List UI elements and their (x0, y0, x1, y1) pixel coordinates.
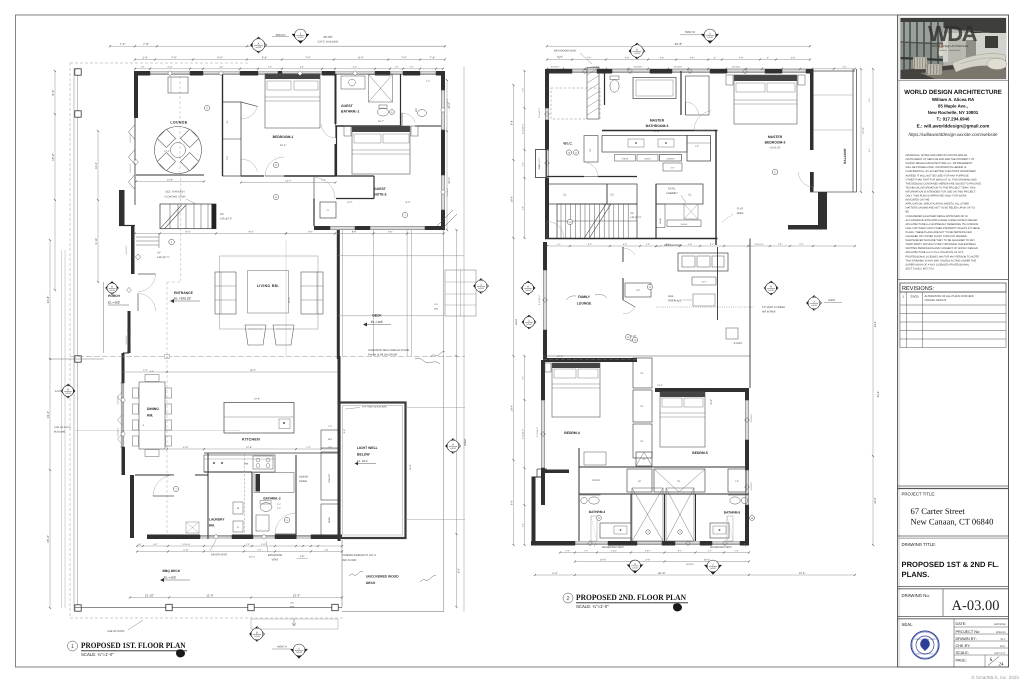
thin line through living rm (285, 240, 287, 356)
svg-text:BUILDING.: BUILDING. (54, 431, 66, 434)
dimension line (130, 597, 342, 599)
title block outer frame (898, 15, 1009, 667)
svg-text:2'-6": 2'-6" (258, 548, 262, 551)
svg-text:12'-0": 12'-0" (288, 297, 291, 303)
wc door (402, 113, 415, 122)
wall: bedrm4 north (543, 358, 637, 362)
svg-text:7'-4": 7'-4" (521, 376, 524, 380)
svg-text:SCALE:: SCALE: (956, 651, 970, 655)
svg-text:2'-0"x6'-0": 2'-0"x6'-0" (732, 66, 741, 69)
svg-text:26'-00": 26'-00" (323, 35, 332, 39)
toilet and sink bathrm5 (730, 497, 740, 504)
wall: plan2 south exterior (560, 541, 575, 546)
dimension line (547, 245, 855, 247)
shower pan bathrm2 (254, 473, 294, 493)
svg-text:A-3.00: A-3.00 (707, 36, 713, 39)
svg-text:A-3.00: A-3.00 (298, 36, 304, 39)
svg-text:LINE OF ROOF: LINE OF ROOF (107, 630, 125, 633)
wall: bedrm-4 west (541, 360, 545, 400)
svg-text:THIRD PARTY WITHOUT FIRST OBTA: THIRD PARTY WITHOUT FIRST OBTAINING THE … (906, 243, 977, 246)
window: wic west (545, 150, 547, 178)
compass/section marker (106, 282, 119, 295)
svg-text:8'-0": 8'-0" (406, 201, 411, 204)
compass/section marker (474, 279, 489, 294)
window: north wall (335, 71, 375, 73)
svg-text:16'-8": 16'-8" (409, 464, 412, 470)
closet band between bedrooms (633, 358, 652, 388)
svg-text:4'-6": 4'-6" (388, 230, 393, 233)
stair plan2 (557, 204, 637, 239)
svg-text:67 Carter Street: 67 Carter Street (911, 506, 966, 516)
svg-text:LC: LC (638, 480, 641, 483)
window: guest suite south (330, 226, 355, 228)
column (332, 604, 338, 610)
svg-text:REF: REF (328, 438, 333, 441)
shower drains (646, 530, 650, 534)
svg-text:6/20/2024: 6/20/2024 (994, 623, 1006, 626)
balcony east edge (852, 69, 854, 192)
wall: bedrm4 south (543, 470, 569, 474)
svg-text:4": 4" (767, 56, 769, 59)
wall jog to dining bay (123, 352, 129, 354)
svg-text:DRAWN BY:: DRAWN BY: (956, 637, 977, 641)
window: east wall (441, 90, 443, 130)
dimension line (535, 574, 855, 576)
svg-text:11'-6": 11'-6" (206, 593, 213, 597)
svg-text:EL.=105.25': EL.=105.25' (174, 297, 191, 301)
svg-text:2'-6": 2'-6" (328, 446, 333, 449)
svg-text:D: D (237, 526, 239, 529)
svg-text:1: 1 (71, 644, 74, 650)
wall: master se corner (818, 192, 827, 227)
shower bathrm-5 (666, 488, 694, 541)
door: wic (586, 163, 598, 177)
svg-text:BATHROOM-3: BATHROOM-3 (646, 124, 669, 128)
svg-text:VENT: VENT (272, 559, 279, 562)
plan 1 title (68, 641, 78, 651)
stove burners (253, 456, 273, 469)
closet CC (607, 184, 637, 204)
sofa left (215, 272, 236, 314)
svg-text:APPLICATION. SPECIFICATION S: APPLICATION. SPECIFICATION SHEETS. ALL O… (906, 203, 970, 206)
svg-text:2'-10"x5'-0": 2'-10"x5'-0" (521, 124, 524, 134)
svg-text:FLOATING STAIR: FLOATING STAIR (165, 196, 186, 199)
svg-text:PROJECT No:: PROJECT No: (956, 630, 981, 634)
svg-text:BEDROOM-1: BEDROOM-1 (273, 135, 294, 139)
marker circle bath (284, 517, 289, 522)
svg-text:7'-4": 7'-4" (430, 56, 435, 59)
svg-text:GUEST: GUEST (341, 104, 354, 108)
W markers (597, 516, 602, 521)
svg-text:12'-6": 12'-6" (280, 144, 287, 147)
svg-text:13'-6": 13'-6" (657, 384, 663, 387)
svg-text:THIS DRAWING IN ANY WAY UNLESS: THIS DRAWING IN ANY WAY UNLESS ACTING UN… (906, 259, 977, 262)
svg-text:PROJECT TITLE:: PROJECT TITLE: (902, 492, 936, 497)
drawing number box (898, 586, 1009, 588)
stair: floating stair (160, 204, 216, 229)
svg-text:WORLD DESIGN ARCHITECTURE LLC.: WORLD DESIGN ARCHITECTURE LLC. INFRINGEM… (906, 162, 973, 165)
svg-text:LAUNDRY: LAUNDRY (209, 518, 225, 522)
svg-text:WC: WC (415, 108, 418, 112)
prep closet (321, 504, 338, 535)
svg-text:19'-4": 19'-4" (46, 411, 50, 419)
svg-text:6'-0": 6'-0" (510, 500, 513, 505)
svg-text:GUEST: GUEST (374, 187, 387, 191)
svg-text:BATHRM.-1: BATHRM.-1 (341, 110, 360, 114)
svg-text:9½": 9½" (138, 543, 142, 546)
svg-text:16'-7": 16'-7" (378, 120, 384, 123)
svg-text:2'-6": 2'-6" (778, 243, 782, 246)
column (75, 605, 81, 611)
svg-text:UP: UP (157, 252, 161, 255)
deck area horizontals (338, 255, 464, 257)
svg-text:8'-10": 8'-10" (557, 56, 563, 59)
drawing title box (898, 535, 1009, 537)
page number 6/24 (984, 655, 986, 667)
svg-text:17'-4": 17'-4" (862, 127, 865, 134)
dimension line (137, 551, 342, 553)
svg-text:14R @7.5": 14R @7.5" (220, 218, 232, 221)
wall: master bath south (602, 130, 718, 132)
svg-text:AREA: AREA (737, 212, 744, 215)
svg-text:NORTH: NORTH (686, 563, 694, 566)
svg-text:22'-4": 22'-4" (448, 177, 451, 184)
svg-text:DRAWING TITLE:: DRAWING TITLE: (902, 542, 937, 547)
svg-text:STUDY: STUDY (734, 342, 743, 345)
window: plan2 north (572, 69, 597, 71)
svg-text:2'-6"x7'-0": 2'-6"x7'-0" (129, 163, 132, 172)
LC closet lounge (625, 283, 651, 297)
svg-text:New Canaan, CT 06840: New Canaan, CT 06840 (911, 517, 994, 527)
svg-text:84'-8": 84'-8" (877, 391, 880, 398)
svg-text:A-3.00: A-3.00 (634, 52, 640, 55)
svg-text:24: 24 (999, 662, 1005, 668)
walls: bathrooms (578, 448, 580, 541)
svg-text:2'-6": 2'-6" (226, 156, 229, 161)
svg-text:OTHER THAN THAT FOR WHICH IT I: OTHER THAN THAT FOR WHICH IT IS. THIS DR… (906, 178, 977, 181)
svg-text:2'-10"x5'-0": 2'-10"x5'-0" (538, 108, 541, 118)
lounge centerline dashed (179, 76, 181, 175)
svg-text:FINISH SLAB ON GRADE: FINISH SLAB ON GRADE (368, 354, 398, 357)
svg-text:EL.=105': EL.=105' (164, 576, 177, 580)
window: bedrm5 east (745, 470, 747, 505)
wall: living rm east (337, 230, 340, 359)
dimension line (860, 69, 862, 192)
svg-text:3'-0"x4'-4": 3'-0"x4'-4" (754, 243, 764, 246)
svg-text:SOUTH: SOUTH (685, 30, 695, 34)
wall: balcony west (810, 71, 814, 150)
svg-text:PREP: PREP (328, 516, 331, 522)
hearth dotted line (656, 306, 754, 308)
walls: kitchen bath block (207, 453, 209, 539)
svg-text:KITCHEN: KITCHEN (242, 438, 260, 442)
svg-text:DINING: DINING (147, 407, 159, 411)
svg-text:W.A.: W.A. (1000, 645, 1006, 648)
window: north wall (390, 71, 403, 73)
svg-text:PROPOSED 1ST & 2ND FL.: PROPOSED 1ST & 2ND FL. (902, 560, 999, 569)
svg-text:CONFIDENTIAL. BY ACCEPTING TH: CONFIDENTIAL. BY ACCEPTING THIS PRINT, B… (906, 170, 976, 173)
window: plan2 north (612, 69, 650, 71)
svg-text:2'-0"x6'-8": 2'-0"x6'-8" (446, 98, 449, 107)
svg-text:2'-0"x6'-0": 2'-0"x6'-0" (634, 66, 643, 69)
wic closet box (584, 136, 598, 163)
window: south wall (296, 534, 311, 536)
wall: east of kitchen (338, 356, 341, 541)
svg-text:2'-6"x7'-0": 2'-6"x7'-0" (129, 133, 132, 142)
svg-text:WEST: WEST (828, 299, 836, 302)
svg-text:WDA: WDA (928, 21, 978, 46)
wall: tub-shower divider (680, 71, 682, 115)
svg-text:DATE:: DATE: (956, 622, 967, 626)
svg-text:2'-2": 2'-2" (426, 80, 431, 83)
refrigerator closet (321, 430, 338, 448)
svg-text:RM.: RM. (147, 414, 153, 418)
guest bath toilet (378, 108, 389, 116)
svg-text:WEST: WEST (464, 438, 467, 446)
svg-text:E.: will.aworlddesign@gmail.co: E.: will.aworlddesign@gmail.com (917, 124, 990, 129)
svg-text:4'-0": 4'-0" (623, 243, 627, 246)
porch floor edge (103, 282, 105, 353)
svg-text:3'-4": 3'-4" (325, 548, 329, 551)
svg-text:New Rochelle, NY 10801: New Rochelle, NY 10801 (928, 110, 979, 115)
svg-text:DRYER VENT: DRYER VENT (211, 554, 228, 557)
wall: guest suite south (314, 226, 330, 230)
bed: bedrm-4 (552, 363, 600, 368)
window: plan2 south (712, 541, 740, 543)
dimension line (524, 356, 526, 545)
wall: alcove return (119, 225, 135, 227)
svg-text:SUPERVISION OF A NYS LICENSED: SUPERVISION OF A NYS LICENSED PROFESSION… (906, 263, 970, 266)
project title box (898, 485, 1009, 487)
svg-text:SHELF: SHELF (681, 223, 688, 226)
svg-text:BALCONY: BALCONY (843, 147, 847, 164)
svg-text:SEAL: SEAL (902, 622, 914, 627)
svg-text:2ND FLOOR.: 2ND FLOOR. (342, 559, 357, 562)
svg-text:SUITE-2: SUITE-2 (374, 193, 387, 197)
svg-text:LIGHT WELL: LIGHT WELL (357, 446, 378, 450)
dimension line (137, 545, 342, 547)
svg-text:LOUNGE: LOUNGE (170, 121, 187, 125)
svg-text:A: A (452, 443, 454, 446)
svg-text:7'-0": 7'-0" (305, 56, 310, 59)
svg-text:PLANS. THESE PLANS ARE NOT TO: PLANS. THESE PLANS ARE NOT TO BE REPRODU… (906, 231, 973, 234)
svg-text:ACCORDANCE WITH APPLICABLE CO: ACCORDANCE WITH APPLICABLE CODES.WORLD D… (906, 219, 978, 222)
svg-text:12'-10": 12'-10" (145, 593, 154, 597)
compass/section marker (250, 627, 265, 642)
toilet and sink bathrm4 (589, 497, 599, 504)
svg-text:7'-4": 7'-4" (120, 42, 126, 46)
svg-text:5'-4": 5'-4" (868, 148, 871, 152)
svg-text:A-3.00: A-3.00 (526, 323, 532, 326)
svg-text:4'-0": 4'-0" (688, 243, 692, 246)
svg-text:CC: CC (610, 194, 614, 197)
deck area verticals (342, 230, 344, 356)
svg-text:2'-0": 2'-0" (277, 503, 281, 506)
wall: east wing (749, 239, 751, 389)
svg-text:WHATSOEVER NOR ARE THEY TO BE: WHATSOEVER NOR ARE THEY TO BE ASSIGNED T… (906, 239, 976, 242)
laundry dashed appliance (186, 522, 199, 533)
svg-text:4'-10": 4'-10" (183, 446, 189, 449)
svg-text:2024-03: 2024-03 (996, 631, 1006, 634)
svg-text:SEAT: SEAT (538, 164, 541, 170)
guest suite closet (320, 202, 336, 218)
wall: plan1 west exterior (lounge) (134, 71, 138, 118)
svg-text:A-3.00: A-3.00 (65, 392, 71, 395)
dimension line (135, 68, 443, 70)
marker circles upper (204, 105, 209, 110)
wall: plan1 east exterior (guest suite) (441, 71, 445, 90)
dimension line (547, 68, 855, 70)
svg-text:A-03.00: A-03.00 (952, 598, 1000, 614)
svg-text:1/4"=1'-0": 1/4"=1'-0" (994, 652, 1005, 655)
svg-text:9'-2": 9'-2" (308, 230, 313, 233)
compass/section marker (704, 565, 722, 575)
svg-text:12'-6": 12'-6" (246, 446, 252, 449)
svg-text:2'-6": 2'-6" (799, 243, 803, 246)
svg-text:4'-1": 4'-1" (708, 549, 712, 552)
svg-text:3'-0"x5'-0": 3'-0"x5'-0" (117, 427, 120, 436)
svg-text:DECK: DECK (372, 314, 382, 318)
column (75, 356, 81, 362)
compass/section marker (446, 439, 461, 454)
svg-text:DRAIN: DRAIN (299, 480, 307, 483)
svg-text:13'-2": 13'-2" (285, 179, 291, 182)
svg-text:AGREES IT WILL NOT BE USED FOR: AGREES IT WILL NOT BE USED FOR ANY PURPO… (906, 174, 969, 177)
lounge console table (168, 77, 188, 93)
bathrm2 toilet (260, 503, 272, 512)
svg-text:LOUNGE: LOUNGE (577, 302, 592, 306)
svg-text:REG. ARCHITECT: REG. ARCHITECT (917, 653, 935, 656)
plan 1: left colonnade double line (73, 68, 75, 611)
wall: lounge-bedroom divider (222, 74, 224, 176)
svg-text:1'-0": 1'-0" (734, 549, 738, 552)
shelf boxes (615, 155, 636, 162)
wall: toilet room (604, 71, 606, 105)
column (75, 69, 81, 75)
svg-text:14R @7.5": 14R @7.5" (157, 256, 170, 259)
compass/section marker (807, 296, 822, 311)
svg-text:W.I.C.: W.I.C. (563, 142, 572, 146)
svg-text:LAW COPYRIGHT AND OTHER PROPER: LAW COPYRIGHT AND OTHER PROPERTY RIGHTS … (906, 227, 980, 230)
wall: sw bump plan2 (532, 477, 536, 541)
svg-text:14R @7.5": 14R @7.5" (630, 216, 642, 219)
svg-text:PROPOSED 1ST. FLOOR PLAN: PROPOSED 1ST. FLOOR PLAN (81, 641, 186, 650)
dimension line (97, 131, 99, 282)
svg-text:8'-0": 8'-0" (348, 201, 353, 204)
svg-text:BATHRM.-2: BATHRM.-2 (263, 497, 281, 501)
svg-text:SHELF: SHELF (622, 157, 629, 160)
dimension line (123, 371, 339, 373)
wall: lounge south rail (136, 174, 204, 176)
svg-text:BATHROOM VENT: BATHROOM VENT (710, 546, 732, 549)
svg-text:STATE OF NEW YORK: STATE OF NEW YORK (915, 638, 937, 641)
dimension line (872, 69, 874, 545)
svg-text:85 Maple Ave.,: 85 Maple Ave., (938, 104, 968, 109)
svg-text:5'-0": 5'-0" (150, 370, 154, 373)
svg-text:10'-8": 10'-8" (799, 572, 806, 575)
bedrm4 corner notch (537, 468, 547, 470)
svg-text:2'-10"x5'-0": 2'-10"x5'-0" (521, 429, 524, 439)
window: north wall (282, 71, 322, 73)
svg-text:15'-0": 15'-0" (51, 153, 55, 161)
wall: lounge floor line (543, 355, 750, 357)
svg-text:2'-0"x6'-0": 2'-0"x6'-0" (551, 66, 560, 69)
svg-text:B: B (256, 631, 258, 634)
window marker diamond (136, 254, 141, 260)
window: bedrm5 east (745, 400, 747, 440)
svg-text:CONSIDERED AS EITHER BEING APP: CONSIDERED AS EITHER BEING APPROVED OR I… (906, 215, 968, 218)
svg-text:A-3.00: A-3.00 (450, 447, 456, 450)
svg-text:HIDDEN DOOR: HIDDEN DOOR (664, 244, 682, 247)
compass/section marker (629, 43, 645, 59)
balcony north edge (814, 70, 856, 72)
window: south wall (253, 534, 275, 536)
svg-text:7'-4": 7'-4" (556, 243, 560, 246)
svg-text:THE DESIGNS CONTAINED HEREIN A: THE DESIGNS CONTAINED HEREIN ARE ISSUED … (906, 182, 982, 185)
svg-text:A-3.00: A-3.00 (254, 635, 260, 638)
svg-text:ALTERATION OF ALL PLANS FOR NE: ALTERATION OF ALL PLANS FOR NEW (925, 295, 975, 298)
svg-text:3'-0"x5'-0": 3'-0"x5'-0" (750, 413, 753, 422)
svg-text:PROPOSED 2ND. FLOOR PLAN: PROPOSED 2ND. FLOOR PLAN (576, 593, 686, 602)
bathrm2 vanity (256, 515, 269, 531)
svg-text:3'-0": 3'-0" (645, 558, 650, 561)
svg-text:4'-0½": 4'-0½" (611, 549, 617, 552)
wall window diamonds plan2 (545, 111, 550, 116)
svg-text:2'-6": 2'-6" (671, 167, 675, 170)
svg-text:(6R): (6R) (434, 308, 439, 311)
cursor ink blob plan2 (673, 603, 682, 611)
column (75, 111, 81, 117)
svg-text:BBQ DECK: BBQ DECK (163, 569, 181, 573)
svg-text:3'-0"x5'-0": 3'-0"x5'-0" (117, 395, 120, 404)
svg-text:2: 2 (566, 596, 569, 602)
sofa right (301, 272, 323, 314)
svg-text:A-3.00: A-3.00 (768, 289, 774, 292)
svg-text:INDICATED ON THE: INDICATED ON THE (906, 199, 930, 202)
closet doors (241, 106, 257, 119)
svg-text:BATHRM-5: BATHRM-5 (724, 511, 741, 515)
wall: media room divider (622, 247, 624, 262)
svg-text:1'-6": 1'-6" (141, 66, 145, 69)
master tub (633, 78, 676, 99)
closet column (223, 102, 242, 176)
dimension line (286, 233, 444, 235)
svg-text:BELOW: BELOW (357, 453, 370, 457)
svg-text:10'-0": 10'-0" (600, 558, 606, 561)
svg-text:6'-10": 6'-10" (183, 548, 188, 551)
svg-text:T.: 917.294.6946: T.: 917.294.6946 (937, 117, 971, 122)
svg-text:5'-0": 5'-0" (353, 66, 357, 69)
master shower (686, 76, 710, 115)
dimension line (136, 181, 204, 183)
svg-text:PORCH: PORCH (108, 294, 121, 298)
svg-text:2/9/25: 2/9/25 (910, 295, 919, 299)
window: east wall (441, 175, 443, 210)
svg-text:A-3.00: A-3.00 (811, 304, 817, 307)
guest bath shower (369, 75, 393, 103)
svg-text:UNCOVERED WOOD: UNCOVERED WOOD (366, 575, 399, 579)
svg-text:16'-4": 16'-4" (95, 162, 98, 169)
svg-text:CONCRETE DECK W/BLUE STONE: CONCRETE DECK W/BLUE STONE (368, 349, 410, 352)
living room area rug (220, 256, 319, 329)
svg-text:10'-6": 10'-6" (254, 398, 260, 401)
vent shaft hatched (587, 68, 599, 120)
svg-text:EL. 94.2': EL. 94.2' (357, 459, 368, 463)
wall: stair east (655, 184, 657, 239)
svg-text:LC: LC (636, 289, 639, 292)
svg-text:A: A (111, 285, 113, 288)
svg-text:3'-0"x5'-0": 3'-0"x5'-0" (750, 481, 753, 490)
